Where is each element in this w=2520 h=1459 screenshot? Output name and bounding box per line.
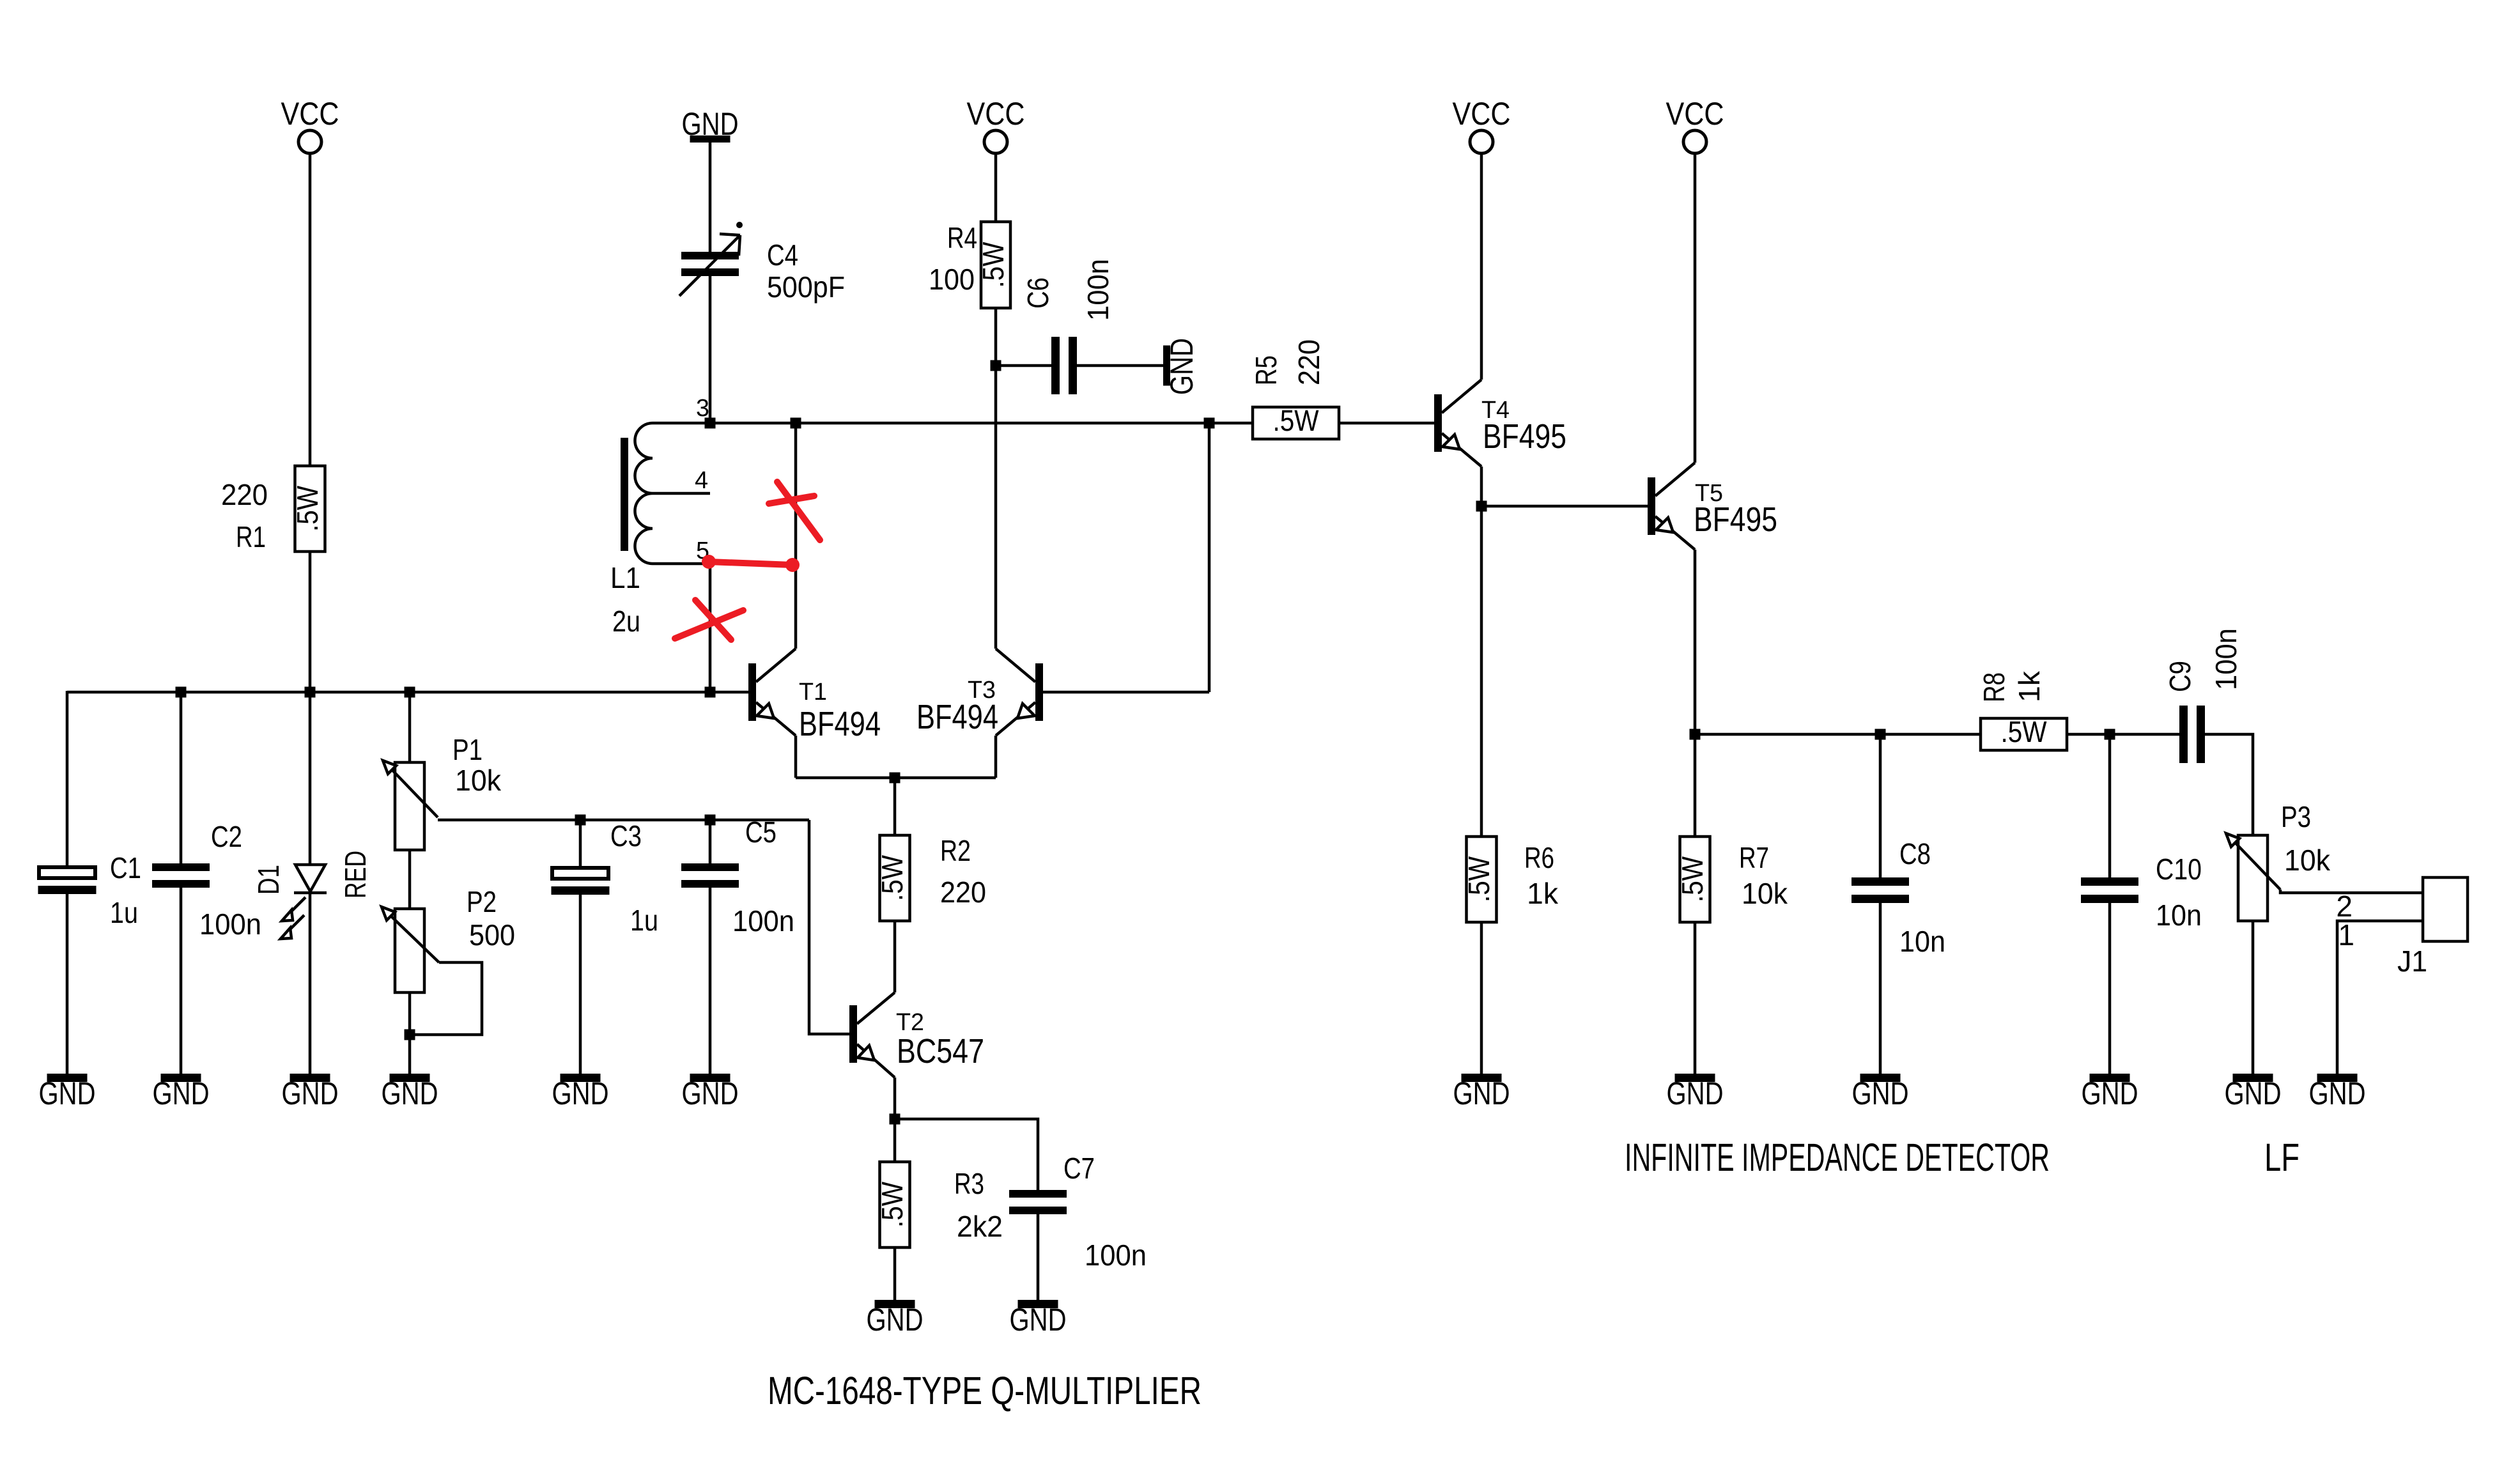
svg-text:.5W: .5W (1273, 404, 1320, 437)
svg-text:10k: 10k (455, 764, 502, 797)
svg-text:10n: 10n (2156, 899, 2202, 932)
wire bus to C2 (180, 692, 183, 863)
svg-text:MC-1648-TYPE Q-MULTIPLIER: MC-1648-TYPE Q-MULTIPLIER (768, 1369, 1202, 1412)
wire bus to P1 (408, 692, 412, 762)
wire R4 to node (994, 308, 998, 366)
red X lower (cut pin5 riser) (675, 600, 743, 640)
ground C1 (39, 1074, 96, 1111)
ground C7 (1010, 1300, 1067, 1338)
wire R1 to bus (309, 552, 312, 692)
svg-text:C3: C3 (610, 819, 642, 853)
resistor R4 (929, 221, 1010, 308)
node R4-C6-T3 (991, 360, 1001, 371)
wire R7 to GND (1694, 922, 1697, 1074)
wire main bus (67, 691, 748, 694)
ground C6 (rotated) (1163, 338, 1200, 395)
wire C5 top (709, 820, 712, 863)
node bus-P1 (405, 687, 415, 698)
node bus-D1 (305, 687, 316, 698)
transistor T1 (748, 649, 881, 743)
node R8-C10 (2105, 729, 2115, 740)
svg-text:L1: L1 (610, 561, 640, 594)
wire C7 to GND (1037, 1214, 1040, 1300)
svg-text:100n: 100n (1085, 1239, 1147, 1272)
resistor R6 (1462, 837, 1559, 922)
connector J1 (2397, 877, 2468, 978)
svg-text:GND: GND (1164, 338, 1200, 395)
resistor R7 (1676, 837, 1788, 922)
svg-text:1u: 1u (630, 904, 658, 937)
ground C8 (1852, 1074, 1909, 1111)
wire VCC to T4 collector (1480, 153, 1483, 380)
svg-text:1k: 1k (2013, 670, 2046, 702)
ground R3 (867, 1300, 924, 1338)
node output-C8 (1875, 729, 1886, 740)
wire emitter to C7 (895, 1119, 1038, 1190)
capacitor C8 (1851, 837, 1945, 958)
wire J1 pin1 to GND (2337, 921, 2423, 1074)
resistor R5 (1249, 339, 1339, 439)
node bus-L1pin5 (705, 687, 716, 698)
wire L1 pin4 stub (653, 492, 710, 495)
wire P1 to P2 (408, 850, 412, 909)
svg-text:C8: C8 (1899, 837, 1931, 870)
wire emitter node to R2 (893, 778, 897, 835)
node T5 emitter / output (1690, 729, 1701, 740)
node T4 emitter / T5 base (1476, 501, 1487, 512)
node P2 wiper tie (405, 1030, 415, 1040)
ground J1 (2309, 1074, 2366, 1111)
wire T4 emitter down to R6 (1480, 467, 1483, 837)
resistor R1 (221, 466, 325, 553)
wire C3 to GND (579, 895, 582, 1074)
svg-text:220: 220 (221, 478, 268, 511)
node wiper-C5 (705, 815, 716, 826)
wire emitter to R3 (893, 1119, 897, 1162)
svg-text:P3: P3 (2281, 800, 2311, 833)
svg-text:10n: 10n (1899, 925, 1945, 958)
svg-text:500pF: 500pF (767, 270, 845, 304)
wire L1 pin5 stub (653, 562, 710, 566)
svg-text:100n: 100n (2209, 628, 2243, 690)
svg-text:RED: RED (339, 851, 372, 899)
potentiometer P2 (382, 885, 515, 992)
LED D1 (252, 851, 372, 939)
resistor R3 (876, 1162, 1003, 1247)
svg-text:C5: C5 (745, 815, 777, 849)
capacitor C1 (38, 851, 142, 929)
wire T3 base to right riser (1043, 691, 1209, 694)
svg-text:C10: C10 (2156, 853, 2202, 886)
wire P2 wiper to bottom (410, 962, 482, 1035)
node rail-R5 (1204, 418, 1215, 429)
wire C4 to tank rail (709, 276, 712, 423)
ground R7 (1667, 1074, 1724, 1111)
transistor T3 (mirrored) (916, 649, 1043, 736)
resistor R8 (1977, 670, 2067, 750)
svg-text:C6: C6 (1021, 277, 1055, 309)
capacitor C10 (2081, 853, 2202, 932)
svg-text:10k: 10k (1742, 877, 1788, 910)
red X upper (cut T1 collector riser) (769, 482, 820, 540)
svg-text:4: 4 (695, 467, 708, 494)
wire P3 to GND (2252, 921, 2255, 1074)
svg-text:C1: C1 (110, 851, 141, 884)
wire wiper bus to T2 base (809, 820, 849, 1034)
wire C6 to GND (1077, 364, 1163, 367)
capacitor C7 (1009, 1152, 1147, 1272)
transistor T4 (1434, 380, 1566, 467)
wire tank rail (653, 422, 1209, 425)
svg-text:R6: R6 (1524, 841, 1554, 874)
wire common emitter rail (796, 776, 996, 780)
wire C3 top (579, 820, 582, 866)
red mod wire pin5 to T1 collector (702, 555, 800, 572)
capacitor C5 (681, 815, 794, 938)
wire C8 top (1879, 734, 1882, 877)
node T2 emitter (890, 1114, 901, 1125)
svg-text:C7: C7 (1063, 1152, 1095, 1185)
svg-text:2u: 2u (612, 605, 640, 638)
svg-text:C4: C4 (767, 238, 798, 272)
wire P1 wiper bus (438, 819, 809, 822)
ground R6 (1453, 1074, 1510, 1111)
wire T2 emitter down (893, 1077, 897, 1119)
wire bus corner to C1 (66, 691, 69, 865)
wire node to C6 (996, 364, 1051, 367)
node wiper-C3 (575, 815, 586, 826)
wire C8 to GND (1879, 903, 1882, 1074)
svg-text:.5W: .5W (2001, 715, 2048, 748)
wire rail to R5 (1209, 422, 1253, 425)
svg-text:P1: P1 (452, 733, 483, 766)
wire P3 wiper to J1 pin2 (2280, 890, 2423, 893)
svg-text:R5: R5 (1249, 355, 1283, 385)
svg-text:P2: P2 (467, 885, 497, 918)
node emitters-R2 (890, 773, 901, 784)
wire C9 to P3 (2205, 734, 2253, 835)
power VCC (R1 supply) (281, 96, 339, 153)
wire C1 to GND (66, 894, 69, 1074)
ground C3 (552, 1074, 609, 1111)
svg-text:R4: R4 (947, 221, 977, 254)
capacitor C2 (152, 820, 261, 941)
node bus-C2 (176, 687, 187, 698)
svg-text:100: 100 (929, 263, 975, 296)
wire VCC to R1 (309, 153, 312, 466)
power VCC (T5) (1666, 96, 1724, 153)
svg-text:R2: R2 (940, 834, 971, 867)
svg-text:3: 3 (696, 395, 709, 422)
svg-text:100n: 100n (732, 904, 794, 938)
ground P3 (2225, 1074, 2282, 1111)
svg-text:1k: 1k (1527, 877, 1559, 910)
wire T1 collector vertical (794, 423, 798, 649)
ground C2 (153, 1074, 210, 1111)
wire GND to C4 (709, 143, 712, 252)
wire output run to R8 (1695, 733, 1981, 736)
svg-text:1: 1 (2338, 918, 2354, 952)
wire P2 to GND (408, 992, 412, 1074)
svg-text:220: 220 (940, 876, 986, 909)
svg-text:R3: R3 (954, 1167, 984, 1200)
capacitor C6 (1021, 259, 1115, 394)
svg-text:INFINITE IMPEDANCE DETECTOR: INFINITE IMPEDANCE DETECTOR (1625, 1136, 2050, 1179)
ground top (C4) (682, 106, 739, 143)
ground C5 (682, 1074, 739, 1111)
svg-text:D1: D1 (252, 865, 285, 895)
wire C2 to GND (180, 888, 183, 1074)
node rail-T1 collector (791, 418, 801, 429)
svg-text:LF: LF (2264, 1136, 2300, 1179)
svg-text:100n: 100n (199, 907, 261, 941)
capacitor C4 (variable) (679, 222, 845, 304)
svg-text:BF495: BF495 (1694, 500, 1777, 539)
svg-text:220: 220 (1292, 339, 1326, 385)
wire R3 to GND (893, 1247, 897, 1300)
wire bus to D1 (309, 692, 312, 864)
wire R2 to T2 collector (893, 921, 897, 992)
wire C5 to GND (709, 888, 712, 1074)
svg-text:1u: 1u (110, 896, 138, 929)
wire R5 to T4 base (1339, 422, 1434, 425)
wire C10 top (2108, 734, 2112, 877)
wire T1 emitter down (794, 736, 798, 778)
wire T5 emitter down to R7 (1694, 550, 1697, 837)
svg-text:BC547: BC547 (897, 1032, 984, 1070)
svg-text:10k: 10k (2284, 844, 2331, 877)
svg-text:C2: C2 (211, 820, 242, 853)
wire R8 to C9 (2067, 733, 2179, 736)
potentiometer P1 (383, 733, 502, 850)
wire to T5 base (1481, 505, 1648, 508)
svg-text:T1: T1 (799, 679, 827, 706)
svg-text:.5W: .5W (977, 242, 1010, 288)
svg-text:500: 500 (469, 918, 515, 952)
wire right riser (1208, 423, 1211, 692)
svg-text:J1: J1 (2397, 945, 2427, 978)
svg-text:R7: R7 (1739, 841, 1769, 874)
svg-text:BF494: BF494 (916, 698, 998, 736)
transistor T5 (1648, 463, 1777, 550)
capacitor C3 (552, 819, 659, 937)
svg-text:2k2: 2k2 (957, 1210, 1003, 1243)
potentiometer P3 (2226, 800, 2331, 921)
wire T3 emitter down (994, 736, 998, 778)
wire VCC to R4 (994, 153, 998, 222)
ground C10 (2082, 1074, 2138, 1111)
wire D1 to GND (309, 893, 312, 1074)
wire pin5 down to bus (709, 564, 712, 692)
wire R6 to GND (1480, 922, 1483, 1074)
capacitor C9 (2163, 628, 2243, 763)
power VCC (R4 supply) (967, 96, 1025, 153)
svg-text:100n: 100n (1081, 259, 1115, 321)
node rail-C4 (705, 418, 716, 429)
svg-text:C9: C9 (2163, 661, 2197, 692)
svg-text:R1: R1 (236, 520, 266, 553)
power VCC (T4) (1453, 96, 1511, 153)
wire T3 collector vertical (994, 366, 998, 649)
transistor T2 (849, 992, 984, 1077)
inductor L1 (610, 423, 653, 638)
wire VCC to T5 collector (1694, 153, 1697, 463)
ground D1 (282, 1074, 339, 1111)
svg-text:BF494: BF494 (799, 705, 881, 743)
ground P2 (382, 1074, 438, 1111)
wire C10 to GND (2108, 903, 2112, 1074)
svg-text:R8: R8 (1977, 672, 2011, 702)
resistor R2 (876, 834, 986, 921)
svg-text:BF495: BF495 (1483, 417, 1566, 456)
